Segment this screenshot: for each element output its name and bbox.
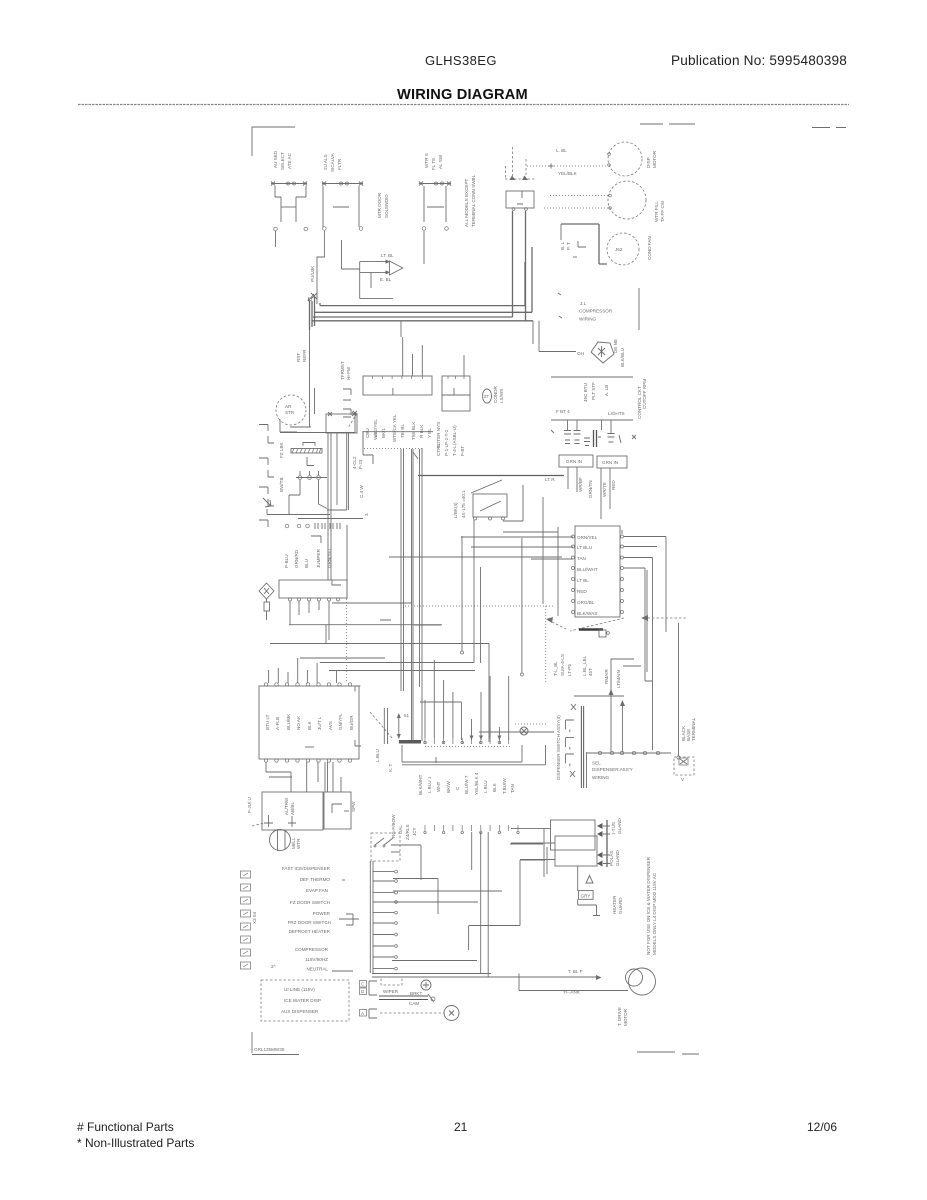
junction arrowhead bbox=[308, 294, 314, 301]
footer functional parts bbox=[77, 1120, 174, 1134]
main bus y475 bbox=[418, 475, 564, 477]
freezer switch dashed box bbox=[371, 833, 400, 861]
lights labels bbox=[556, 382, 642, 419]
switch S1 labels bbox=[273, 150, 292, 170]
svg-text:PLT STF: PLT STF bbox=[591, 382, 596, 400]
dotted link to board bbox=[346, 599, 348, 683]
svg-text:GRL125MW35: GRL125MW35 bbox=[254, 1047, 285, 1052]
dispenser UI dashed box bbox=[261, 980, 349, 1021]
svg-text:TFRMST: TFRMST bbox=[340, 361, 345, 380]
svg-text:45C BTU: 45C BTU bbox=[583, 383, 588, 402]
horizontal bus lines upper bbox=[310, 247, 534, 427]
auger relay box 2 bbox=[555, 836, 597, 866]
box B1 bbox=[560, 224, 607, 264]
svg-text:BLK: BLK bbox=[492, 782, 497, 792]
svg-text:WR/BF: WR/BF bbox=[578, 477, 583, 492]
ctrl labels above bus bbox=[436, 444, 465, 456]
svg-text:21: 21 bbox=[454, 1120, 468, 1134]
switch S3 labels bbox=[424, 153, 443, 170]
CN2 elbow wire bbox=[280, 432, 433, 449]
svg-text:Y BL: Y BL bbox=[427, 428, 432, 438]
svg-text:TA FF CW: TA FF CW bbox=[660, 200, 665, 222]
svg-text:AR: AR bbox=[285, 404, 292, 409]
svg-text:DISP: DISP bbox=[646, 157, 651, 168]
svg-text:EVAP FAN: EVAP FAN bbox=[306, 888, 328, 893]
svg-text:* Non-Illustrated Parts: * Non-Illustrated Parts bbox=[77, 1136, 194, 1150]
svg-text:BLK: BLK bbox=[307, 720, 312, 730]
cn2 lower labels bbox=[352, 431, 373, 516]
svg-text:T-L_BL: T-L_BL bbox=[553, 661, 558, 676]
lamp L4 bbox=[608, 421, 622, 444]
svg-text:NOT FOR USE ON ICE & WATER DIS: NOT FOR USE ON ICE & WATER DISPENSER bbox=[646, 856, 651, 955]
left connector fingers bbox=[259, 425, 274, 528]
svg-text:PU/LBK: PU/LBK bbox=[310, 265, 315, 282]
auger relay box 1 bbox=[551, 820, 596, 850]
svg-text:L.BLU: L.BLU bbox=[375, 749, 380, 762]
long note text bbox=[646, 856, 657, 955]
svg-text:SICALVA: SICALVA bbox=[330, 152, 335, 172]
ground box G1 bbox=[559, 455, 593, 467]
svg-text:BRKT: BRKT bbox=[410, 991, 422, 996]
svg-text:B. L: B. L bbox=[560, 241, 565, 250]
footer page number bbox=[454, 1120, 468, 1134]
svg-text:DISPENSER SWITCH ASSY(4): DISPENSER SWITCH ASSY(4) bbox=[556, 715, 561, 780]
CN2 wire labels bbox=[365, 414, 432, 442]
center verticals bbox=[461, 497, 559, 683]
svg-text:(ASBL-U): (ASBL-U) bbox=[452, 425, 457, 445]
rmair elbow bbox=[604, 659, 634, 752]
svg-text:T.BU/W: T.BU/W bbox=[502, 778, 507, 794]
svg-text:FL TE: FL TE bbox=[431, 158, 436, 170]
switch S1 bbox=[271, 182, 308, 248]
svg-text:BLK/WAS: BLK/WAS bbox=[577, 611, 597, 616]
svg-text:BLK/BLU: BLK/BLU bbox=[620, 348, 625, 367]
svg-text:TAN: TAN bbox=[577, 556, 586, 561]
svg-text:GLAND: GLAND bbox=[617, 817, 622, 834]
svg-text:POWER: POWER bbox=[313, 911, 331, 916]
svg-text:CTRL: CTRL bbox=[436, 444, 441, 456]
lt-main elbow bbox=[616, 666, 641, 752]
long verticals low bbox=[472, 832, 489, 977]
condenser sensor bbox=[483, 385, 505, 403]
tilt switch TS1 bbox=[471, 480, 523, 521]
svg-text:CAM: CAM bbox=[409, 1001, 419, 1006]
auger triangle bbox=[586, 876, 593, 884]
see dispenser wiring note bbox=[581, 706, 632, 788]
svg-text:TAN: TAN bbox=[510, 784, 515, 793]
svg-text:E. BL: E. BL bbox=[380, 277, 392, 282]
svg-text:L.BL_LBL: L.BL_LBL bbox=[582, 655, 587, 676]
CN3 wire labels bbox=[436, 422, 457, 448]
svg-text:MTR DOOR: MTR DOOR bbox=[377, 192, 382, 218]
svg-text:WTR S: WTR S bbox=[424, 153, 429, 168]
lblu wire pair bbox=[384, 708, 393, 772]
svg-text:GRN/RD: GRN/RD bbox=[294, 549, 299, 568]
svg-text:3: 3 bbox=[364, 513, 369, 516]
connector CN4 bbox=[399, 740, 522, 763]
BD1 bottom pins bbox=[264, 759, 351, 762]
svg-text:BK/1: BK/1 bbox=[381, 428, 386, 438]
capacitor C1 bbox=[594, 421, 602, 448]
svg-text:A-FLB: A-FLB bbox=[275, 717, 280, 730]
thermostat fingers bbox=[343, 389, 357, 433]
diagonal dashed link bbox=[355, 686, 410, 762]
G2 leads bbox=[601, 468, 616, 519]
svg-text:WTE/CA YEL: WTE/CA YEL bbox=[392, 414, 397, 442]
svg-text:AUX DISPENSER: AUX DISPENSER bbox=[281, 1009, 319, 1014]
svg-text:FLTR: FLTR bbox=[337, 158, 342, 170]
svg-text:STR: STR bbox=[285, 410, 295, 415]
BD1 top stubs bbox=[269, 545, 347, 683]
svg-text:HI-FM: HI-FM bbox=[346, 367, 351, 380]
dotted leads to fans bbox=[527, 148, 609, 208]
svg-text:TE. BL: TE. BL bbox=[400, 424, 405, 438]
footer date bbox=[807, 1120, 837, 1134]
svg-text:WIRING: WIRING bbox=[592, 775, 610, 780]
svg-text:LIGHTS: LIGHTS bbox=[608, 411, 625, 416]
svg-text:AB/BL: AB/BL bbox=[290, 802, 295, 815]
svg-text:BW/TB: BW/TB bbox=[279, 477, 284, 492]
svg-text:MOTOR: MOTOR bbox=[652, 150, 657, 168]
svg-text:GRN/YEL: GRN/YEL bbox=[327, 547, 332, 568]
harness labels above LB bbox=[284, 547, 332, 568]
svg-text:2U ALS: 2U ALS bbox=[323, 154, 328, 170]
svg-text:SELECT: SELECT bbox=[280, 152, 285, 170]
motor M3 bbox=[607, 233, 652, 265]
dispenser switch brackets bbox=[369, 981, 377, 1018]
header publication number bbox=[671, 53, 847, 68]
defrost timer M4 bbox=[276, 395, 311, 432]
svg-text:BU/GR: BU/GR bbox=[349, 715, 354, 730]
svg-text:F-23: F-23 bbox=[358, 459, 363, 469]
svg-text:FZ LBK: FZ LBK bbox=[279, 441, 284, 458]
svg-text:ThE BLK: ThE BLK bbox=[411, 421, 416, 440]
mid horizontal buses bbox=[270, 606, 553, 742]
svg-text:K. T: K. T bbox=[388, 763, 393, 772]
svg-text:P-1-L: P-1-L bbox=[444, 444, 449, 456]
svg-text:POLAS: POLAS bbox=[609, 851, 614, 866]
header model number bbox=[425, 53, 497, 68]
svg-text:REFR: REFR bbox=[302, 349, 307, 362]
heater bar dark bbox=[579, 630, 609, 638]
lights bottom line bbox=[551, 419, 633, 421]
relay box R bbox=[324, 792, 356, 829]
svg-text:115V/60HZ: 115V/60HZ bbox=[305, 957, 328, 962]
svg-text:F-JU/ U: F-JU/ U bbox=[247, 797, 252, 813]
refr labels bbox=[296, 349, 307, 362]
cutoff label bbox=[642, 379, 647, 409]
svg-text:FAST ICE/DISPENSER: FAST ICE/DISPENSER bbox=[282, 866, 331, 871]
svg-text:JUMPER: JUMPER bbox=[316, 548, 321, 568]
svg-text:LT R.: LT R. bbox=[545, 477, 556, 482]
svg-text:CBU: CBU bbox=[365, 428, 370, 438]
svg-text:37: 37 bbox=[484, 394, 490, 399]
svg-text:P-BLU: P-BLU bbox=[284, 554, 289, 568]
thermistor diamond bbox=[259, 583, 274, 620]
pin row P2 bbox=[424, 825, 519, 834]
x mark bbox=[551, 430, 636, 439]
dispenser pin bus bbox=[587, 751, 671, 754]
ice harness wires bbox=[267, 480, 363, 519]
svg-text:Z4/RLS: Z4/RLS bbox=[405, 824, 410, 840]
svg-text:4X-175 =40.1: 4X-175 =40.1 bbox=[461, 490, 466, 518]
svg-text:MOTOR: MOTOR bbox=[623, 1008, 628, 1026]
svg-text:LT BL: LT BL bbox=[577, 578, 589, 583]
svg-text:ICE WATER DISP: ICE WATER DISP bbox=[284, 998, 321, 1003]
CN4 wire labels bbox=[418, 772, 515, 795]
svg-text:WTR: WTR bbox=[296, 838, 301, 849]
harness pin row PR1 bbox=[285, 523, 347, 545]
thermostat arrow cluster bbox=[342, 240, 403, 299]
svg-text:ORN/YEL: ORN/YEL bbox=[577, 535, 598, 540]
svg-text:TERMINAL: TERMINAL bbox=[691, 717, 696, 741]
bottom dash marks bbox=[637, 1052, 699, 1054]
lamp L3 bbox=[584, 438, 590, 446]
svg-text:GRY: GRY bbox=[581, 894, 591, 899]
footer non-illustrated parts bbox=[77, 1136, 194, 1150]
svg-text:ORG/BL: ORG/BL bbox=[577, 600, 595, 605]
switch S2 bbox=[322, 182, 363, 231]
svg-text:CONTROL CKT: CONTROL CKT bbox=[637, 386, 642, 419]
svg-text:BTU LT: BTU LT bbox=[265, 714, 270, 730]
svg-text:YEL/BLK: YEL/BLK bbox=[558, 171, 578, 176]
svg-text:BLU/BK: BLU/BK bbox=[286, 713, 291, 730]
svg-text:WR/TE: WR/TE bbox=[602, 482, 607, 497]
svg-text:AL SW: AL SW bbox=[438, 154, 443, 169]
svg-text:LS/WS: LS/WS bbox=[499, 389, 504, 403]
BD1 top pins bbox=[264, 683, 351, 686]
svg-text:C.4 W: C.4 W bbox=[359, 485, 364, 498]
CN4 pins bbox=[424, 738, 509, 744]
svg-text:RED: RED bbox=[611, 480, 616, 490]
svg-text:ALL MODELS EXCEPT: ALL MODELS EXCEPT bbox=[464, 178, 469, 227]
main connector block CB bbox=[575, 526, 620, 617]
LB pin wires bbox=[290, 601, 412, 640]
switch S3 bbox=[419, 182, 451, 265]
svg-text:GLHS38EG: GLHS38EG bbox=[425, 53, 497, 68]
svg-text:I-TUS: I-TUS bbox=[611, 822, 616, 834]
svg-text:CONDR: CONDR bbox=[493, 385, 498, 403]
svg-text:JCT: JCT bbox=[412, 827, 417, 836]
lamp L1 bbox=[564, 421, 571, 444]
svg-text:W/T2/YEL: W/T2/YEL bbox=[373, 419, 378, 440]
defrost heater hatched bar bbox=[291, 443, 322, 466]
water valve icon bbox=[515, 724, 547, 735]
svg-text:GRN/TN: GRN/TN bbox=[588, 480, 593, 498]
svg-text:JU/T L: JU/T L bbox=[317, 716, 322, 730]
svg-text:GRN IN: GRN IN bbox=[602, 460, 618, 465]
CB right wires bbox=[622, 530, 666, 750]
svg-text:CUTOFF RPM: CUTOFF RPM bbox=[642, 379, 647, 409]
CB left pins bbox=[572, 535, 575, 614]
junction arrow bbox=[397, 713, 401, 739]
svg-text:F-BT: F-BT bbox=[460, 446, 465, 456]
svg-text:BK/W: BK/W bbox=[446, 781, 451, 793]
svg-text:L/BK(4): L/BK(4) bbox=[453, 502, 458, 518]
svg-text:BLU/WHT: BLU/WHT bbox=[577, 567, 598, 572]
svg-text:NO AK: NO AK bbox=[296, 715, 301, 730]
svg-text:WTR FILL: WTR FILL bbox=[654, 201, 659, 222]
ground lug dashed box bbox=[674, 757, 694, 782]
svg-text:L BLU 1: L BLU 1 bbox=[427, 776, 432, 793]
svg-text:AL/TRW: AL/TRW bbox=[284, 797, 289, 815]
CN4 wires above bbox=[402, 660, 554, 765]
CB right pins bbox=[621, 535, 624, 614]
harness wires right bbox=[339, 844, 545, 961]
dispenser dashed arrows bbox=[546, 615, 686, 631]
board BD1 bbox=[259, 686, 359, 759]
title bbox=[397, 87, 528, 103]
dispenser wire labels left bbox=[553, 654, 593, 676]
svg-text:L BLU: L BLU bbox=[483, 780, 488, 793]
compressor wiring note bbox=[558, 288, 639, 330]
svg-text:BLU: BLU bbox=[304, 559, 309, 568]
connector CN2 bbox=[363, 337, 432, 395]
motor M6 bbox=[519, 968, 656, 1026]
connector CN3 bbox=[442, 355, 470, 411]
auger feed wires bbox=[511, 828, 555, 877]
svg-text:SOLENOID: SOLENOID bbox=[384, 194, 389, 218]
title rule bbox=[78, 104, 849, 106]
svg-text:FZ DOOR SWITCH: FZ DOOR SWITCH bbox=[290, 900, 330, 905]
black base labels bbox=[681, 717, 696, 741]
compressor overload OL bbox=[577, 339, 625, 367]
long box LB bbox=[279, 580, 347, 601]
svg-text:DISPENSER ASS'Y: DISPENSER ASS'Y bbox=[592, 767, 633, 772]
svg-text:NEUTRAL: NEUTRAL bbox=[307, 967, 329, 972]
G1 leads bbox=[545, 467, 593, 498]
svg-text:RG-F/BOW: RG-F/BOW bbox=[391, 814, 396, 838]
BD1 bottom stubs bbox=[266, 762, 341, 792]
svg-text:# Functional Parts: # Functional Parts bbox=[77, 1120, 174, 1134]
label column LBL1 bbox=[377, 192, 389, 218]
svg-text:YEL/BLK 4: YEL/BLK 4 bbox=[474, 772, 479, 795]
control board text block bbox=[252, 866, 353, 972]
harness spine bbox=[370, 861, 397, 973]
svg-text:X3 04: X3 04 bbox=[252, 912, 257, 924]
dispenser long wire bbox=[574, 623, 680, 759]
svg-text:T. BL F: T. BL F bbox=[568, 969, 583, 974]
svg-text:COMPRESSOR: COMPRESSOR bbox=[579, 309, 613, 314]
svg-text:Publication No: 5995480398: Publication No: 5995480398 bbox=[671, 53, 847, 68]
svg-text:FRZ DOOR SWITCH: FRZ DOOR SWITCH bbox=[288, 920, 331, 925]
mid-right short horizontals bbox=[389, 532, 573, 559]
auger connector bbox=[597, 817, 622, 867]
svg-text:AU SED: AU SED bbox=[273, 150, 278, 168]
svg-text:COMPRESSOR: COMPRESSOR bbox=[295, 947, 329, 952]
svg-text:4-CL2: 4-CL2 bbox=[352, 456, 357, 469]
svg-text:HEATER: HEATER bbox=[612, 895, 617, 914]
bus junction X bbox=[311, 293, 317, 299]
corner mark bottom-left bbox=[252, 1032, 299, 1055]
relay K2 bbox=[326, 412, 357, 580]
svg-text:SUIA-4-LS: SUIA-4-LS bbox=[560, 654, 565, 676]
dotted link bbox=[364, 448, 424, 450]
svg-text:DE NE: DE NE bbox=[613, 339, 618, 353]
bus y321 with overload bbox=[401, 321, 576, 352]
svg-text:LT-P5: LT-P5 bbox=[567, 664, 572, 676]
svg-text:L. BL: L. BL bbox=[556, 148, 567, 153]
lamp L2 bbox=[574, 421, 581, 444]
svg-text:TERMINAL CONN SWBL: TERMINAL CONN SWBL bbox=[471, 174, 476, 227]
svg-text:GN/YFL: GN/YFL bbox=[338, 713, 343, 730]
relay K1 bbox=[505, 147, 535, 321]
switch S2 labels bbox=[323, 152, 342, 172]
svg-text:RMAIR: RMAIR bbox=[604, 669, 609, 684]
svg-text:F BT 4: F BT 4 bbox=[556, 409, 570, 414]
wire S2 to bus bbox=[310, 231, 324, 304]
svg-text:GUARD: GUARD bbox=[618, 897, 623, 914]
svg-text:P-2-T-2: P-2-T-2 bbox=[444, 429, 449, 445]
top dash marks bbox=[640, 124, 846, 128]
svg-text:T. DRIVE: T. DRIVE bbox=[617, 1007, 622, 1026]
svg-text:A. LB: A. LB bbox=[604, 385, 609, 396]
svg-text:J.L: J.L bbox=[580, 301, 587, 306]
neutral lines bbox=[372, 974, 598, 991]
label column LBL2 bbox=[464, 174, 476, 227]
svg-text:ATE AC: ATE AC bbox=[287, 152, 292, 169]
water motor M5 bbox=[270, 829, 302, 851]
relay box L bbox=[247, 792, 323, 830]
tilt switch TS1 labels bbox=[453, 490, 466, 518]
svg-text:AVS: AVS bbox=[328, 721, 333, 730]
svg-text:51: 51 bbox=[404, 713, 410, 718]
corner mark top-left bbox=[252, 127, 295, 156]
lights cluster top line bbox=[551, 376, 633, 378]
svg-text:DAL: DAL bbox=[398, 825, 403, 834]
svg-text:LT. BL: LT. BL bbox=[381, 253, 394, 258]
svg-text:T-4-L: T-4-L bbox=[452, 445, 457, 456]
svg-text:GLAND: GLAND bbox=[615, 849, 620, 866]
svg-text:RED: RED bbox=[577, 589, 587, 594]
motor M1 bbox=[608, 142, 657, 176]
svg-text:COND FAN: COND FAN bbox=[647, 236, 652, 260]
svg-text:GRN IN: GRN IN bbox=[566, 459, 582, 464]
svg-text:SEL: SEL bbox=[592, 761, 601, 766]
dispenser switch fingers bbox=[556, 704, 576, 780]
UI connector strip bbox=[360, 981, 367, 1017]
svg-text:12/06: 12/06 bbox=[807, 1120, 837, 1134]
svg-text:OH: OH bbox=[577, 351, 584, 356]
svg-text:BLK/WHT: BLK/WHT bbox=[418, 774, 423, 795]
wiper box bbox=[379, 977, 459, 1021]
svg-text:WIRING: WIRING bbox=[579, 317, 597, 322]
thermostat labels bbox=[340, 361, 351, 380]
svg-text:LT BLU: LT BLU bbox=[577, 545, 592, 550]
svg-text:DEFROST HEATER: DEFROST HEATER bbox=[289, 929, 331, 934]
ice pin row bbox=[296, 471, 327, 479]
svg-text:P. T: P. T bbox=[566, 242, 571, 250]
svg-text:MODELS ONLY L4 DISP MOD 115V A: MODELS ONLY L4 DISP MOD 115V AC bbox=[652, 872, 657, 955]
svg-text:LT/MAIN: LT/MAIN bbox=[616, 670, 621, 688]
svg-text:BLU/W 7: BLU/W 7 bbox=[464, 775, 469, 794]
harness labels left low bbox=[391, 814, 417, 840]
svg-text:RST: RST bbox=[296, 353, 301, 362]
gry box bbox=[578, 866, 623, 916]
finger labels bbox=[279, 441, 284, 492]
motor M2 bbox=[608, 181, 665, 222]
svg-text:R BLK: R BLK bbox=[419, 424, 424, 438]
ground box G2 bbox=[597, 456, 627, 468]
svg-text:WIPER: WIPER bbox=[383, 989, 399, 994]
svg-text:DEF THERMO: DEF THERMO bbox=[300, 877, 331, 882]
svg-text:SPW: SPW bbox=[351, 801, 356, 812]
svg-text:WHT: WHT bbox=[436, 781, 441, 792]
svg-text:UI LINE (115V): UI LINE (115V) bbox=[284, 987, 315, 992]
BD1 wire labels bbox=[265, 713, 354, 730]
svg-text:J62: J62 bbox=[615, 247, 623, 252]
long vertical pair left bbox=[401, 448, 422, 741]
